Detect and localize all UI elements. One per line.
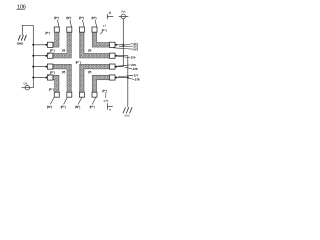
leader top 1 — [57, 20, 59, 27]
pad top 4 — [92, 27, 97, 32]
leader 271 — [124, 44, 133, 46]
resistor BR-inner (c3 + row C) — [80, 64, 110, 92]
wire stub right C — [115, 66, 123, 68]
wire stub right D — [115, 77, 128, 79]
svg-text:(N⁺): (N⁺) — [66, 16, 71, 20]
leader bottom 4 — [92, 98, 96, 105]
leader 274 — [118, 56, 131, 57]
resistor BL-outer (c1 + row D) — [53, 75, 59, 92]
leader TR quadrant — [100, 32, 102, 35]
resistor TR-inner (c3 + row B) — [80, 32, 110, 58]
wire line2 to ground — [115, 56, 128, 108]
leader bottom 2 — [64, 98, 68, 105]
svg-text:x: x — [109, 107, 111, 111]
svg-text:(P⁻): (P⁻) — [102, 89, 107, 93]
pad right A — [110, 42, 116, 47]
leader top 2 — [70, 20, 72, 27]
resistor TL-inner (c2 + row B) — [53, 32, 72, 58]
leader 276 — [124, 67, 132, 69]
leader 277 — [118, 75, 133, 77]
pad right B — [110, 53, 116, 58]
svg-text:279: 279 — [104, 99, 109, 103]
leader top 4 — [95, 20, 97, 27]
wire stub left A — [33, 44, 47, 46]
svg-text:GND: GND — [124, 114, 130, 117]
pad left D — [47, 75, 53, 80]
leader 278 — [128, 78, 134, 79]
axis marker X top-right — [106, 14, 108, 19]
svg-text:(P): (P) — [62, 70, 65, 74]
wire stub left C — [33, 66, 47, 68]
ground symbol bottom-right — [123, 107, 132, 113]
svg-text:GND: GND — [17, 41, 24, 45]
svg-text:276: 276 — [133, 67, 138, 71]
wire stub left D — [33, 77, 47, 79]
svg-text:17: 17 — [103, 24, 107, 28]
resistor TL-outer (c1 + row A) — [53, 32, 59, 47]
junction dots left — [32, 44, 47, 79]
leader bottom 3 — [78, 98, 82, 105]
svg-text:V01: V01 — [23, 82, 28, 85]
axis marker X bottom-right — [107, 103, 109, 109]
pad left C — [47, 64, 53, 69]
svg-text:X: X — [109, 11, 112, 15]
svg-text:(P): (P) — [88, 70, 91, 74]
wire GND stem — [22, 25, 33, 35]
svg-text:(P): (P) — [62, 48, 65, 52]
pad bottom 1 — [54, 92, 59, 97]
resistor TR-outer (c4 + row A) — [92, 32, 109, 47]
pad left A — [47, 42, 53, 47]
ground symbol top-left — [18, 35, 26, 41]
resistor BR-outer (c4 + row D) — [92, 75, 109, 92]
pad top 2 — [67, 27, 72, 32]
terminal V01 bottom-left — [25, 86, 29, 90]
svg-text:(P): (P) — [88, 48, 91, 52]
right reference labels — [131, 42, 140, 82]
junction dots right — [115, 44, 129, 79]
svg-text:(N⁺): (N⁺) — [92, 16, 97, 20]
pad bottom 4 — [92, 92, 97, 97]
wire stub right A — [115, 44, 123, 46]
svg-text:(N⁺): (N⁺) — [75, 105, 80, 109]
pad top 3 — [79, 27, 84, 32]
svg-text:(P⁺): (P⁺) — [79, 16, 84, 20]
leader top 3 — [83, 20, 85, 27]
svg-text:278: 278 — [135, 78, 140, 82]
pad bottom 3 — [79, 92, 84, 97]
svg-text:273: 273 — [133, 47, 138, 51]
svg-text:(P⁻): (P⁻) — [50, 71, 55, 75]
svg-text:274: 274 — [131, 56, 136, 60]
pad right D — [110, 75, 116, 80]
wire left bus — [32, 25, 34, 87]
svg-text:(N⁺): (N⁺) — [47, 105, 52, 109]
leader 273 — [114, 48, 134, 49]
underline of 106 — [16, 9, 25, 11]
svg-text:(P⁻): (P⁻) — [50, 49, 55, 53]
pad top 1 — [54, 27, 59, 32]
pad left B — [47, 53, 53, 58]
pad right C — [110, 64, 116, 69]
leader 275 — [118, 65, 131, 66]
svg-text:(P⁺): (P⁺) — [61, 105, 66, 109]
leader 272 — [119, 45, 133, 48]
svg-text:(P⁺): (P⁺) — [90, 105, 95, 109]
leader left mid — [48, 52, 50, 54]
svg-text:(P⁻): (P⁻) — [76, 60, 81, 64]
pad bottom 2 — [67, 92, 72, 97]
svg-text:(P⁺): (P⁺) — [54, 16, 59, 20]
svg-text:Vcc: Vcc — [121, 10, 126, 14]
resistor BL-inner (c2 + row C) — [53, 64, 72, 92]
wire stub left B — [33, 55, 47, 57]
leader bottom 1 — [50, 98, 54, 105]
svg-text:(P⁻): (P⁻) — [49, 88, 54, 92]
svg-text:(P⁻): (P⁻) — [45, 31, 50, 35]
leader BL mid — [48, 74, 50, 76]
wire line1 from Vcc — [122, 19, 124, 67]
